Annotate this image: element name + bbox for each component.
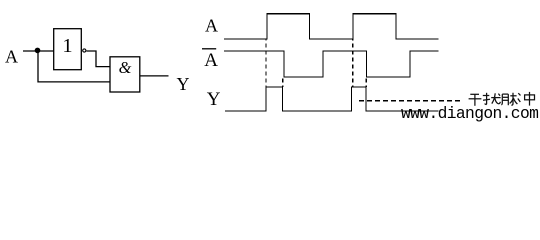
svg-text:Y: Y: [177, 74, 190, 94]
svg-text:A: A: [205, 16, 218, 36]
node junction dot: [35, 48, 41, 54]
inverter output bubble: [83, 49, 86, 52]
wire AND output to Y: [140, 75, 169, 77]
hanzi 冲: [518, 92, 535, 106]
svg-text:A: A: [5, 47, 18, 67]
waveform A-bar trace: [224, 51, 439, 77]
svg-text:www.diangon.com: www.diangon.com: [401, 104, 538, 123]
dashed guide line at A rise 1: [265, 39, 267, 87]
inverter U1 box ("1"): [54, 29, 82, 70]
hanzi 扰: [483, 93, 501, 105]
svg-text:A: A: [204, 50, 218, 71]
svg-text:&: &: [119, 58, 132, 77]
overline of A-bar: [202, 48, 216, 50]
wire A to inverter input: [23, 50, 54, 52]
svg-text:1: 1: [62, 35, 72, 57]
dashed guide line at A rise 2: [352, 39, 354, 87]
svg-text:Y: Y: [207, 89, 221, 110]
dashed guide line at Abar fall 1: [282, 77, 284, 87]
wire inverter output to AND gate upper input: [86, 51, 110, 67]
hanzi 脉: [501, 93, 517, 105]
AND gate U2 box ("&"): [110, 57, 140, 92]
hanzi 干: [469, 94, 482, 106]
dashed guide line at Abar fall 2: [365, 77, 367, 87]
waveform A trace: [224, 14, 439, 39]
wire branch down from junction: [38, 51, 110, 82]
dashed annotation line to interference pulse text: [359, 100, 462, 102]
waveform Y trace: [225, 87, 439, 111]
